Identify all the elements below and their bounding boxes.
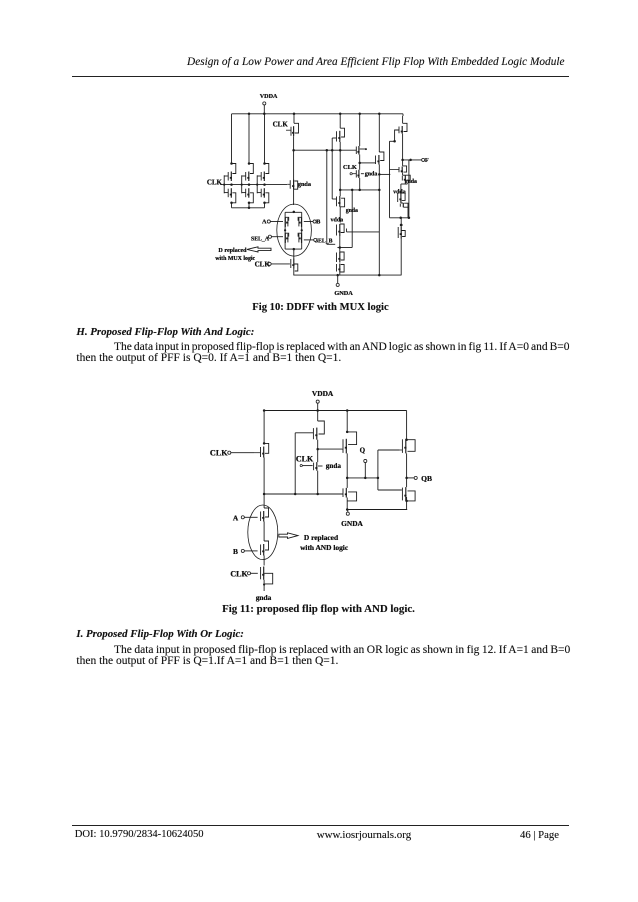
- transistor mid NMOS E (Fig 10): [337, 224, 345, 252]
- label Q (Fig 11): [360, 447, 366, 455]
- port A (Fig 11): [233, 513, 245, 522]
- wire internal node horizontal (Fig 11): [264, 493, 343, 496]
- wire gate bus column 2 (Fig 10): [241, 175, 243, 193]
- label CLK middle (Fig 11): [296, 455, 314, 464]
- svg-text:A: A: [233, 513, 239, 522]
- wire gate bus column 1 (Fig 10): [223, 175, 225, 193]
- label CLK top (Fig 10): [273, 121, 289, 129]
- wire AND column top (Fig 11): [263, 494, 265, 508]
- svg-text:vdda: vdda: [331, 217, 344, 223]
- wire SEL_A to MUX (Fig 10): [272, 236, 284, 238]
- transistor mid NMOS G (Fig 10): [337, 264, 345, 276]
- wire SEL_B to MUX (Fig 10): [304, 239, 314, 241]
- wire CLK to bottom NMOS (Fig 10): [271, 263, 290, 265]
- wire mid node horizontal (Fig 10): [339, 189, 379, 192]
- wire right gate bus top (Fig 10): [390, 140, 396, 143]
- wire drain drop to node X (Fig 10): [292, 136, 295, 151]
- wire rail feed column 2 (Fig 10): [248, 114, 250, 164]
- footer page: [520, 829, 559, 841]
- wire rail feed column 1 (Fig 10): [231, 114, 233, 164]
- port Q stem (Fig 11): [364, 459, 367, 479]
- svg-text:QB: QB: [421, 474, 432, 483]
- label CLK bottom (Fig 11): [230, 569, 250, 578]
- transistor QB-side PMOS (Fig 11): [400, 439, 415, 454]
- svg-text:A: A: [262, 219, 267, 226]
- transistor right NMOS R5 (Fig 10): [400, 203, 408, 218]
- svg-text:CLK: CLK: [296, 455, 314, 464]
- transistor clocked inverter NMOS N2 (Fig 10): [242, 188, 254, 204]
- transistor MUX pass A (Fig 10): [284, 217, 289, 231]
- power GNDA (Fig 10): [334, 275, 353, 297]
- annotation ellipse AND block (Fig 11): [248, 505, 278, 560]
- svg-text:gnda: gnda: [365, 172, 378, 178]
- transistor mid NMOS D (Fig 10): [332, 190, 344, 223]
- node MUX top (Fig 10): [293, 211, 296, 214]
- caption figure 10: [72, 302, 569, 313]
- wire gate bus mid (Fig 10): [331, 138, 333, 199]
- wire QB drop right (Fig 10): [408, 160, 410, 218]
- transistor right NMOS R4 (Fig 10): [398, 181, 406, 203]
- wire rail corner right (Fig 10): [402, 114, 404, 116]
- svg-text:SEL_B: SEL_B: [315, 239, 333, 245]
- label gnda mid lower (Fig 10): [346, 208, 358, 214]
- transistor Q-side PMOS (Fig 11): [342, 411, 357, 454]
- svg-text:B: B: [233, 547, 238, 556]
- wire B lead (Fig 11): [244, 550, 257, 552]
- svg-text:CLK: CLK: [343, 164, 357, 171]
- transistor right NMOS R2 (Fig 10): [390, 160, 407, 173]
- label gnda middle (Fig 11): [326, 462, 342, 470]
- wire left column drop (Fig 11): [263, 458, 266, 496]
- transistor MUX pass SEL_B (Fig 10): [298, 233, 301, 243]
- wire B to MUX (Fig 10): [304, 221, 313, 223]
- wire Q net (Fig 11): [346, 477, 379, 480]
- port B (Fig 10): [313, 219, 321, 226]
- wire rail feed column 3 (Fig 10): [264, 114, 266, 164]
- transistor clocked inverter NMOS N1 (Fig 10): [224, 188, 236, 204]
- wire right bus left (Fig 10): [389, 141, 391, 218]
- wire CLK lead left (Fig 11): [231, 452, 254, 454]
- wire bottom link of input columns (Fig 10): [232, 207, 265, 210]
- wire feedback riser (Fig 11): [295, 433, 313, 494]
- node output column 1 (Fig 10): [230, 183, 233, 186]
- caption figure 11: [70, 603, 567, 615]
- transistor QB-side NMOS (Fig 11): [402, 487, 416, 509]
- node junctions on rail (Fig 11): [263, 409, 349, 412]
- wire node X drop to MUX (Fig 10): [293, 150, 295, 205]
- wire T3 to right bus (Fig 10): [379, 173, 390, 175]
- power VDDA (Fig 11): [312, 389, 334, 410]
- wire MUX left branch (Fig 10): [284, 212, 286, 249]
- wire MUX bridge bottom (Fig 10): [285, 248, 302, 250]
- wire source drop column 2 (Fig 10): [248, 203, 250, 208]
- wire gate bus column 3 (Fig 10): [256, 175, 258, 193]
- transistor clocked inverter PMOS P2 (Fig 10): [242, 162, 254, 181]
- transistor gnda NMOS mid-left (Fig 10): [287, 180, 297, 190]
- port SEL_B (Fig 10): [314, 238, 333, 244]
- transistor input clock PMOS (Fig 11): [254, 411, 269, 458]
- svg-text:gnda: gnda: [256, 593, 272, 602]
- svg-text:CLK: CLK: [230, 569, 248, 578]
- power VDDA (Fig 10): [260, 94, 278, 114]
- svg-text:VDDA: VDDA: [312, 389, 334, 398]
- footer rule: [72, 824, 569, 827]
- node output column 3 (Fig 10): [263, 183, 266, 186]
- wire cross-couple bottom (Fig 11): [378, 489, 402, 491]
- transistor right PMOS R1 (Fig 10): [395, 116, 407, 141]
- paragraph H line 2: [76, 352, 341, 364]
- transistor MUX pass B (Fig 10): [298, 217, 303, 231]
- wire cross-couple riser (Fig 11): [377, 450, 379, 490]
- section heading H: [76, 326, 254, 338]
- wire R1 source to F node (Fig 10): [401, 134, 404, 161]
- wire A to MUX (Fig 10): [270, 221, 283, 223]
- port B (Fig 11): [233, 547, 244, 556]
- wire QB column (Fig 11): [405, 453, 408, 487]
- header rule: [72, 75, 569, 78]
- svg-text:D replaced: D replaced: [304, 533, 339, 542]
- wire cross link mid (Fig 10): [347, 229, 380, 232]
- section heading I: [76, 628, 244, 640]
- port QB (Fig 11): [407, 474, 432, 483]
- svg-text:gnda: gnda: [326, 462, 342, 470]
- wire GNDA bottom rail (Fig 11): [346, 508, 407, 511]
- wire node X horizontal (Fig 10): [294, 149, 357, 152]
- transistor bottom clock NMOS (Fig 10): [291, 249, 298, 275]
- wire source drop column 1 (Fig 10): [231, 203, 233, 208]
- annotation text D replaced with MUX logic (Fig 10): [215, 248, 255, 262]
- port A (Fig 10): [262, 219, 270, 226]
- node junctions on VDDA rail (Fig 10): [248, 113, 381, 116]
- label CLK left (Fig 10): [207, 179, 223, 187]
- wire A lead (Fig 11): [244, 516, 257, 518]
- svg-text:gnda: gnda: [405, 179, 417, 185]
- annotation arrow D replaced (Fig 11): [279, 533, 298, 539]
- wire CLK gate line (Fig 10): [220, 184, 287, 186]
- label vdda mid (Fig 10): [331, 217, 344, 223]
- wire to Q gate (Fig 11): [318, 448, 342, 450]
- power GNDA (Fig 11): [341, 510, 363, 529]
- wire VDDA top rail (Fig 11): [264, 410, 407, 412]
- svg-text:SEL_A: SEL_A: [251, 236, 270, 242]
- wire cross-couple top (Fig 11): [378, 449, 400, 451]
- label CLK middle (Fig 10): [343, 164, 357, 171]
- transistor top clock PMOS (Fig 10): [286, 114, 299, 136]
- label vdda right (Fig 10): [393, 189, 406, 195]
- paragraph I line 2: [76, 655, 338, 667]
- wire GNDA bottom rail (Fig 10): [293, 274, 401, 277]
- transistor latch NMOS mid C (Fig 10): [358, 114, 383, 165]
- wire source drop column 3 (Fig 10): [264, 203, 266, 208]
- transistor right NMOS R6 (Fig 10): [398, 218, 405, 275]
- transistor keeper PMOS mid A (Fig 10): [332, 114, 344, 142]
- svg-text:with AND logic: with AND logic: [300, 543, 349, 552]
- label CLK left (Fig 11): [210, 449, 231, 458]
- svg-text:gnda: gnda: [298, 181, 311, 188]
- transistor mid NMOS F (Fig 10): [337, 252, 345, 263]
- transistor middle PMOS (Fig 11): [313, 411, 324, 440]
- transistor MUX pass SEL_A (Fig 10): [285, 233, 288, 243]
- transistor clocked inverter NMOS N3 (Fig 10): [257, 188, 269, 204]
- svg-text:CLK: CLK: [273, 121, 289, 129]
- transistor AND input B NMOS (Fig 11): [261, 541, 269, 566]
- footer DOI: [75, 829, 204, 840]
- svg-text:D replaced: D replaced: [218, 248, 247, 254]
- transistor mid clock NMOS (Fig 10): [350, 155, 364, 190]
- paragraph H line 1: [114, 341, 570, 353]
- transistor bottom clock NMOS (Fig 11): [261, 567, 273, 592]
- annotation ellipse MUX block (Fig 10): [277, 204, 312, 256]
- wire right rail corner (Fig 11): [405, 411, 408, 441]
- wire middle node (Fig 11): [316, 440, 319, 462]
- label gnda bottom (Fig 11): [256, 593, 272, 602]
- svg-text:B: B: [316, 219, 321, 226]
- label gnda middle (Fig 10): [365, 172, 378, 178]
- wire MUX bridge top (Fig 10): [285, 211, 302, 213]
- port SEL_A (Fig 10): [251, 235, 271, 242]
- wire mid source drop (Fig 10): [339, 142, 341, 190]
- node T3 source (Fig 10): [378, 165, 381, 276]
- svg-text:CLK: CLK: [210, 449, 228, 458]
- running head: [68, 56, 565, 68]
- annotation arrow D replaced (Fig 10): [247, 247, 271, 252]
- wire Q column (Fig 11): [346, 453, 348, 488]
- svg-text:Q: Q: [360, 447, 366, 455]
- label CLK bottom (Fig 10): [255, 260, 272, 268]
- transistor clocked inverter PMOS P3 (Fig 10): [257, 162, 269, 181]
- svg-text:GNDA: GNDA: [334, 290, 353, 297]
- wire vertical mid right (Fig 10): [337, 190, 352, 249]
- wire VDDA top rail (Fig 10): [232, 113, 403, 115]
- node MUX bottom (Fig 10): [293, 248, 296, 251]
- transistor middle clock NMOS (Fig 11): [300, 462, 322, 494]
- annotation text D replaced with AND logic (Fig 11): [300, 533, 349, 552]
- svg-text:F: F: [425, 157, 429, 164]
- footer site: [317, 829, 411, 841]
- label gnda mid-left (Fig 10): [298, 181, 311, 188]
- svg-text:GNDA: GNDA: [341, 519, 363, 528]
- transistor latch PMOS mid B (Fig 10): [356, 114, 367, 155]
- transistor Q-side NMOS (Fig 11): [343, 488, 357, 510]
- svg-text:vdda: vdda: [393, 189, 406, 195]
- transistor AND input A NMOS (Fig 11): [261, 508, 269, 541]
- label gnda right (Fig 10): [405, 179, 417, 185]
- transistor right NMOS R3 (Fig 10): [402, 173, 410, 181]
- svg-text:with MUX logic: with MUX logic: [215, 256, 255, 262]
- wire stub node Y (Fig 10): [327, 150, 335, 244]
- svg-text:VDDA: VDDA: [260, 94, 278, 100]
- wire right bus bottom (Fig 10): [390, 217, 411, 220]
- port F output (Fig 10): [403, 157, 429, 164]
- paragraph I line 1: [114, 644, 570, 656]
- wire CLK bottom lead (Fig 11): [251, 572, 258, 574]
- wire MUX right branch (Fig 10): [301, 212, 303, 249]
- svg-text:CLK: CLK: [207, 179, 223, 187]
- transistor clocked inverter PMOS P1 (Fig 10): [224, 162, 236, 181]
- node output column 2 (Fig 10): [248, 183, 251, 186]
